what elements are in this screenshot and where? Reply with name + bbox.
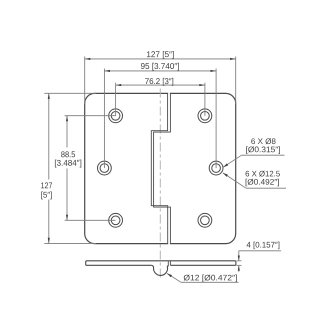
seam gap top edge [168, 92, 170, 94]
hole bottom-left [109, 213, 123, 227]
dimension 88.5 left [65, 116, 116, 221]
label 6 X D12.5 countersink [246, 171, 280, 177]
label 6 X D8 holes [251, 138, 275, 144]
leaf seam line left [151, 94, 167, 244]
knuckle barrel [151, 265, 167, 275]
side view leaf bar [86, 261, 236, 266]
hole bottom-right [198, 213, 212, 227]
hole mid-right [209, 161, 223, 175]
dimension 127 top [85, 57, 236, 105]
hinge plate outline [85, 93, 236, 243]
dimension 95 top [104, 69, 216, 169]
hole mid-left [98, 161, 112, 175]
dimension 76.2 top [116, 83, 205, 116]
dimension 127 left [44, 93, 96, 243]
hole top-left [109, 109, 123, 123]
dimension 4 thickness [237, 251, 282, 272]
hole top-right [198, 109, 212, 123]
seam gap bottom edge [168, 243, 170, 245]
leaf seam line right [154, 94, 171, 244]
knuckle edge lines [167, 261, 169, 266]
centerline of hinge pin [159, 89, 161, 279]
label D12 barrel [184, 275, 237, 283]
